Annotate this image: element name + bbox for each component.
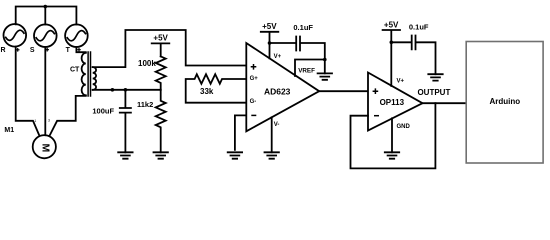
svg-text:3: 3 [48, 119, 50, 123]
resistor R3 33k gain loop G+ to G- [186, 74, 247, 103]
svg-text:V-: V- [274, 122, 280, 128]
svg-text:OUTPUT: OUTPUT [417, 88, 450, 97]
power +5V supply AD623 [261, 32, 279, 59]
svg-text:+5V: +5V [262, 22, 277, 31]
node junction dot at OP113 V+ [390, 41, 394, 45]
wire top rail of three-phase sources [16, 7, 77, 25]
svg-text:R: R [1, 47, 6, 54]
svg-text:+5V: +5V [153, 33, 168, 42]
svg-text:AD623: AD623 [264, 86, 291, 96]
svg-text:GND: GND [397, 124, 411, 130]
svg-text:0.1uF: 0.1uF [293, 23, 313, 32]
wire VREF to ground [295, 60, 325, 77]
wire OP113 feedback loop output to inverting input [351, 103, 436, 168]
svg-text:100uF: 100uF [92, 107, 114, 116]
node junction dot at AD623 V+ [268, 41, 272, 45]
capacitor C3 0.1uF at OP113 [391, 36, 435, 75]
ground at AD623 V- [265, 152, 279, 158]
wire AD623 inverting input to ground [235, 115, 246, 149]
svg-text:M: M [39, 144, 51, 153]
svg-text:M1: M1 [4, 127, 14, 134]
svg-text:CT: CT [70, 66, 80, 73]
AC source S [34, 24, 57, 47]
wire CT primary bottom to motor [49, 96, 86, 136]
ground at AD623 inverting input [228, 152, 242, 158]
svg-text:VREF: VREF [298, 67, 315, 74]
wire AD623 output to OP113 + input [319, 90, 368, 92]
wire OP113 output to Arduino [423, 102, 467, 104]
svg-text:1: 1 [34, 119, 36, 123]
wire AD623 V- to ground [271, 117, 273, 152]
power +5V supply OP113 [383, 30, 400, 86]
AC source T [65, 24, 88, 47]
capacitor C1 100uF [120, 90, 131, 153]
wire CT secondary top to AD623 + input [93, 30, 247, 67]
svg-text:+5V: +5V [384, 20, 399, 29]
op-amp U1 AD623 [246, 43, 319, 131]
transformer CT primary winding [82, 53, 86, 95]
wire T phase down to CT primary [76, 47, 85, 52]
node junction dot at 100uF tap [124, 88, 128, 92]
svg-text:G-: G- [250, 99, 257, 105]
ground under 11k2 [154, 152, 168, 158]
svg-text:11k2: 11k2 [137, 100, 153, 109]
wire R phase down to motor [16, 47, 40, 136]
wire OP113 GND pin to ground [391, 118, 393, 152]
AC source R [4, 24, 27, 47]
svg-text:OP113: OP113 [380, 98, 405, 107]
ground under 100uF [118, 152, 132, 158]
node junction dot at VREF [323, 58, 327, 62]
polarity + of source T [77, 48, 81, 52]
polarity + of source S [45, 48, 49, 52]
svg-text:S: S [30, 47, 35, 54]
svg-text:V+: V+ [397, 78, 405, 84]
OP113 + input mark [373, 88, 379, 94]
ground at VREF [318, 73, 332, 79]
resistor R1 100k [156, 56, 166, 89]
OP113 - input mark [374, 115, 379, 117]
wire S phase down to motor [44, 47, 46, 135]
ground at OP113 0.1uF [428, 74, 442, 80]
Arduino block [466, 42, 543, 164]
node junction dot on top rail [44, 5, 48, 9]
svg-text:T: T [66, 47, 71, 54]
transformer CT core [88, 52, 90, 96]
motor M1 [33, 135, 56, 158]
svg-text:0.1uF: 0.1uF [409, 23, 429, 32]
AD623 - input mark [251, 114, 256, 116]
resistor R2 11k2 [156, 90, 166, 153]
capacitor C2 0.1uF at AD623 [270, 37, 325, 74]
svg-text:G+: G+ [250, 76, 259, 82]
wire CT secondary bottom node [93, 89, 161, 91]
svg-text:V+: V+ [274, 54, 282, 60]
AD623 + input mark [251, 64, 257, 70]
svg-text:33k: 33k [200, 87, 214, 96]
svg-text:100k: 100k [138, 59, 156, 68]
svg-text:Arduino: Arduino [489, 97, 520, 106]
node junction dot on secondary bottom wire [111, 88, 115, 92]
ground at OP113 GND [385, 152, 399, 158]
power +5V supply bar over 100k [152, 43, 170, 56]
op-amp U2 OP113 [368, 73, 423, 131]
transformer CT secondary winding [93, 67, 96, 90]
polarity + of source R [16, 48, 20, 52]
